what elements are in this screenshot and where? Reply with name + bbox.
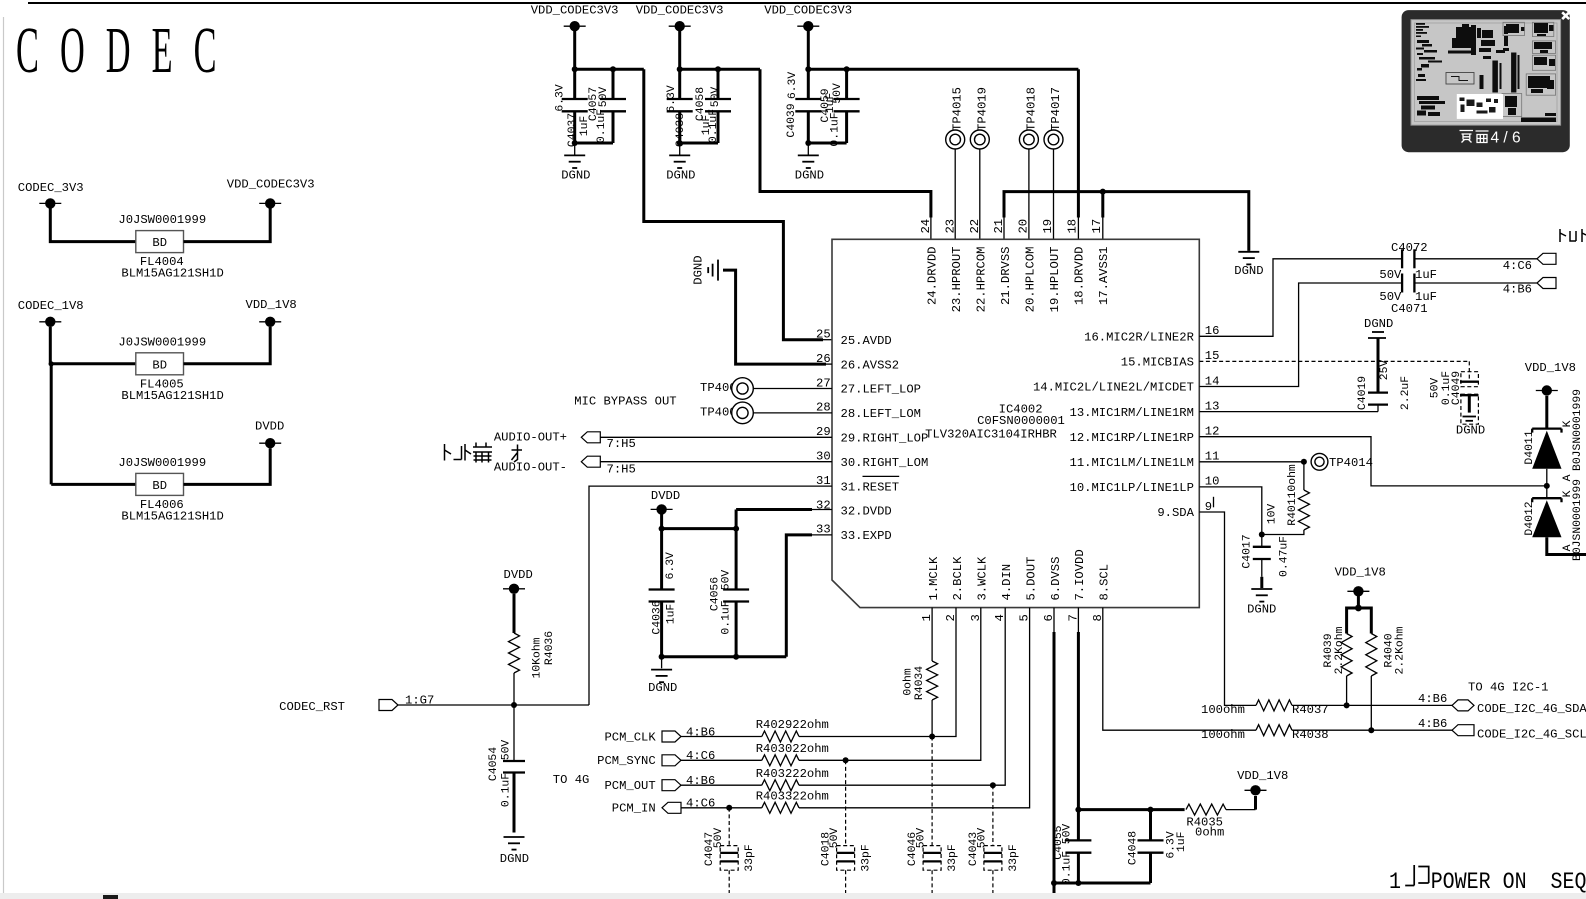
svg-text:DGND: DGND	[500, 852, 529, 866]
node	[610, 66, 616, 72]
svg-text:C4037: C4037	[567, 113, 579, 147]
svg-text:24.DRVDD: 24.DRVDD	[926, 247, 940, 306]
svg-text:22ohm: 22ohm	[792, 742, 829, 756]
ground DGND inverted (C4019 top)	[1364, 317, 1393, 338]
svg-text:2.BCLK: 2.BCLK	[951, 556, 965, 601]
wire	[807, 31, 810, 69]
svg-text:33pF: 33pF	[861, 844, 873, 872]
wire	[50, 327, 136, 364]
svg-text:B0JSN0001999: B0JSN0001999	[1572, 389, 1584, 471]
svg-text:6.3V: 6.3V	[666, 85, 678, 113]
svg-text:15.MICBIAS: 15.MICBIAS	[1121, 356, 1194, 370]
wire	[575, 142, 613, 145]
pin name labels top	[926, 247, 1111, 313]
wire	[184, 208, 271, 241]
capacitor C4043 33pF	[968, 785, 1020, 893]
wire SDA	[1292, 704, 1452, 706]
resistor R4040 2.2Kohm	[1366, 626, 1407, 676]
wire SCL	[1292, 729, 1452, 731]
node	[990, 782, 996, 788]
svg-text:22ohm: 22ohm	[792, 790, 829, 804]
node	[659, 526, 665, 532]
svg-text:32.DVDD: 32.DVDD	[841, 505, 892, 519]
wire pin33 EXPD	[786, 535, 812, 657]
resistor R4039 2.2Kohm	[1323, 626, 1352, 676]
svg-text:D4011: D4011	[1524, 430, 1536, 464]
power net DVDD	[255, 419, 284, 448]
capacitor C4072 1uF	[1379, 241, 1437, 282]
node	[929, 734, 935, 740]
svg-text:1: 1	[1389, 869, 1401, 896]
wire SDA from pin9	[1199, 512, 1256, 705]
wire	[1414, 282, 1537, 284]
svg-text:4:B6: 4:B6	[1503, 282, 1532, 296]
node	[659, 654, 665, 660]
wire RESET to pin31	[589, 486, 832, 705]
svg-text:50V: 50V	[500, 740, 512, 761]
node	[1355, 605, 1362, 612]
svg-text:50V: 50V	[977, 828, 989, 849]
svg-text:R4036: R4036	[544, 631, 556, 665]
svg-text:CODEC: CODEC	[16, 14, 238, 87]
svg-text:DVDD: DVDD	[504, 568, 533, 582]
svg-text:4:B6: 4:B6	[1418, 692, 1447, 706]
node	[844, 66, 850, 72]
power net CODEC_3V3	[18, 181, 84, 209]
svg-text:0.1uF: 0.1uF	[596, 109, 608, 143]
node CODE_I2C_4G_SCL tag	[1418, 717, 1586, 742]
svg-text:VDD_1V8: VDD_1V8	[246, 298, 297, 312]
node	[843, 757, 849, 763]
node	[1368, 727, 1374, 733]
node	[511, 702, 517, 708]
svg-text:4.DIN: 4.DIN	[1000, 564, 1014, 601]
pin number labels left	[816, 328, 831, 537]
ferrite bead FL4004	[118, 213, 223, 281]
svg-text:DGND: DGND	[666, 169, 695, 183]
svg-text:CODEC_3V3: CODEC_3V3	[18, 181, 84, 195]
svg-text:4:B6: 4:B6	[686, 774, 715, 788]
svg-text:9.SDA: 9.SDA	[1157, 506, 1194, 520]
capacitor C4036	[649, 529, 675, 657]
svg-text:7:H5: 7:H5	[607, 463, 636, 477]
svg-text:0.1uF: 0.1uF	[829, 112, 841, 146]
svg-text:CODEC_RST: CODEC_RST	[279, 700, 345, 714]
svg-text:2.2Kohm: 2.2Kohm	[1334, 626, 1346, 674]
resistor R4033 22ohm	[756, 790, 829, 814]
wire	[1370, 676, 1372, 730]
pin name labels left	[841, 334, 929, 543]
node CODEC_1V8 junction	[49, 361, 54, 366]
wire DVSS pin6	[1053, 608, 1055, 632]
test point TP4015	[946, 87, 965, 239]
svg-text:20: 20	[1017, 219, 1031, 234]
svg-text:BLM15AG121SH1D: BLM15AG121SH1D	[121, 389, 223, 403]
pin name labels bottom	[927, 549, 1112, 600]
capacitor C4018 33pF	[821, 760, 873, 893]
svg-text:100ohm: 100ohm	[1201, 728, 1245, 742]
wire	[1226, 809, 1256, 811]
svg-text:J0JSW0001999: J0JSW0001999	[118, 213, 206, 227]
svg-text:28.LEFT_LOM: 28.LEFT_LOM	[841, 407, 921, 421]
pin name labels right	[1033, 331, 1195, 521]
svg-text:14.MIC2L/LINE2L/MICDET: 14.MIC2L/LINE2L/MICDET	[1033, 381, 1194, 395]
svg-text:33pF: 33pF	[947, 844, 959, 872]
svg-text:33pF: 33pF	[1008, 844, 1020, 872]
test point TP4019	[970, 87, 989, 239]
wire AVDD rail (group1 to pin25)	[644, 69, 823, 339]
svg-text:6.DVSS: 6.DVSS	[1049, 557, 1063, 601]
wire MIC1LM	[1199, 461, 1304, 463]
wire PCM_SYNC	[681, 759, 762, 761]
svg-text:C4058: C4058	[695, 87, 707, 121]
diode D4011	[1524, 389, 1584, 486]
svg-text:23: 23	[943, 219, 957, 234]
svg-text:DVDD: DVDD	[651, 489, 680, 503]
svg-text:2.2Kohm: 2.2Kohm	[1395, 626, 1407, 674]
svg-text:0.47uF: 0.47uF	[1278, 536, 1290, 577]
pin number labels top	[919, 219, 1104, 234]
svg-text:21.DRVSS: 21.DRVSS	[999, 247, 1013, 306]
resistor R4030 22ohm	[756, 742, 829, 766]
svg-text:21: 21	[992, 219, 1006, 234]
capacitor C4019 2.2uF	[1357, 338, 1412, 412]
svg-text:17: 17	[1090, 219, 1104, 234]
ground DGND	[500, 837, 529, 866]
power net CODEC_1V8	[18, 299, 84, 327]
svg-text:CODE_I2C_4G_SCL: CODE_I2C_4G_SCL	[1477, 728, 1586, 742]
svg-text:22: 22	[968, 219, 982, 234]
capacitor C4071 1uF	[1379, 274, 1437, 316]
capacitor C4017 0.47uF	[1242, 504, 1291, 588]
bottom scrollbar strip	[0, 893, 1586, 899]
svg-text:12.MIC1RP/LINE1RP: 12.MIC1RP/LINE1RP	[1070, 431, 1194, 445]
svg-text:AUDIO-OUT-: AUDIO-OUT-	[494, 461, 567, 475]
svg-text:0.1uF: 0.1uF	[708, 109, 720, 143]
svg-text:VDD_CODEC3V3: VDD_CODEC3V3	[764, 3, 852, 17]
svg-text:50V: 50V	[829, 828, 841, 849]
svg-text:TP4014: TP4014	[1329, 456, 1373, 470]
node	[726, 805, 732, 811]
svg-text:C4054: C4054	[488, 747, 500, 781]
node	[1148, 807, 1154, 813]
power net VDD_1V8	[1335, 566, 1386, 597]
svg-text:C4048: C4048	[1128, 831, 1140, 865]
ground DGND	[666, 155, 695, 182]
wire bottom rail	[1054, 882, 1151, 885]
svg-text:1uF: 1uF	[1415, 268, 1437, 282]
wire MIC2L to C4071	[1199, 283, 1402, 387]
svg-text:50V: 50V	[1429, 378, 1441, 399]
svg-text:7.IOVDD: 7.IOVDD	[1073, 549, 1087, 600]
sheet top border line	[28, 2, 1586, 4]
power net VDD_1V8	[246, 298, 297, 327]
svg-text:VDD_1V8: VDD_1V8	[1525, 361, 1576, 375]
node AUDIO-OUT- tag	[494, 456, 636, 476]
svg-text:R4032: R4032	[756, 767, 793, 781]
node PCM_IN tag	[612, 797, 715, 816]
svg-text:50V: 50V	[598, 87, 610, 108]
svg-text:10V: 10V	[1267, 504, 1279, 525]
svg-text:25V: 25V	[1379, 360, 1391, 381]
svg-text:31.RESET: 31.RESET	[841, 480, 900, 494]
svg-text:DGND: DGND	[1247, 602, 1276, 616]
wire pin13 to C4019	[1199, 411, 1378, 413]
wire MIC1LP	[1199, 487, 1262, 535]
ground DGND	[795, 155, 824, 182]
node	[1344, 702, 1350, 708]
node	[715, 66, 721, 72]
wire	[1414, 258, 1537, 260]
svg-text:D4012: D4012	[1524, 501, 1536, 535]
svg-text:17.AVSS1: 17.AVSS1	[1097, 247, 1111, 306]
svg-text:0.1uF: 0.1uF	[500, 773, 512, 807]
svg-text:50V: 50V	[916, 828, 928, 849]
node AVSS1 tap	[1100, 189, 1106, 195]
wire CODEC_RST net	[398, 704, 589, 706]
svg-text:24: 24	[919, 219, 933, 234]
capacitor C4049 0.1uF dashed	[1429, 361, 1485, 437]
svg-text:BD: BD	[152, 358, 167, 372]
ground DGND	[1234, 252, 1263, 278]
PDF page preview overlay	[1402, 10, 1570, 152]
ground DGND	[561, 155, 590, 182]
wire	[678, 31, 681, 69]
wire	[184, 448, 271, 484]
label POWER ON SEQ	[1389, 865, 1586, 896]
svg-text:1.MCLK: 1.MCLK	[927, 556, 941, 601]
node	[1075, 880, 1081, 886]
svg-text:32: 32	[816, 498, 831, 512]
wire SCL from pin8	[1103, 608, 1256, 731]
capacitor C4058	[705, 69, 731, 143]
pin number labels bottom	[920, 614, 1105, 621]
svg-text:1uF: 1uF	[1176, 831, 1188, 852]
svg-text:DGND: DGND	[1234, 264, 1263, 278]
svg-text:C4017: C4017	[1242, 534, 1254, 568]
resistor R4011 0ohm	[1262, 462, 1310, 535]
power net VDD_1V8	[1237, 769, 1288, 796]
overline on RESET pin31	[863, 475, 900, 477]
wire	[184, 327, 271, 364]
svg-text:MIC BYPASS OUT: MIC BYPASS OUT	[574, 395, 676, 409]
svg-text:C4039: C4039	[786, 103, 798, 137]
svg-text:R40110ohm: R40110ohm	[1287, 464, 1299, 526]
wire pin32	[735, 510, 738, 529]
svg-text:50V: 50V	[713, 828, 725, 849]
svg-text:CODE_I2C_4G_SDA: CODE_I2C_4G_SDA	[1477, 702, 1586, 716]
node	[733, 526, 739, 532]
node	[677, 66, 683, 72]
wire	[574, 143, 576, 155]
value labels C4038/C4058	[666, 85, 722, 147]
capacitor C4038	[667, 69, 693, 143]
wire DVDD rail	[662, 514, 737, 529]
wire	[807, 143, 809, 155]
svg-text:4 / 6: 4 / 6	[1491, 130, 1521, 147]
wire PCM_IN	[681, 807, 762, 809]
svg-text:PCM_OUT: PCM_OUT	[604, 779, 655, 793]
ground DGND	[648, 670, 677, 695]
wire	[679, 143, 681, 155]
power net DVDD	[503, 568, 533, 594]
wire rail	[808, 68, 1078, 71]
wire	[600, 436, 832, 438]
test point TP4009	[700, 402, 832, 424]
svg-text:TO 4G I2C-1: TO 4G I2C-1	[1468, 680, 1548, 694]
svg-text:C4036: C4036	[651, 600, 663, 634]
resistor R4032 22ohm	[756, 767, 829, 791]
ground DGND rotated	[692, 255, 719, 284]
power net VDD_CODEC3V3	[227, 177, 315, 208]
svg-text:VDD_1V8: VDD_1V8	[1335, 566, 1386, 580]
svg-text:VDD_CODEC3V3: VDD_CODEC3V3	[636, 3, 724, 17]
power net VDD_CODEC3V3	[636, 3, 724, 31]
capacitor C4037	[562, 69, 588, 143]
svg-text:22ohm: 22ohm	[792, 767, 829, 781]
value labels C4039/C4059	[786, 72, 844, 147]
svg-text:BLM15AG121SH1D: BLM15AG121SH1D	[121, 509, 223, 523]
power net VDD_CODEC3V3	[531, 3, 619, 31]
node	[1051, 880, 1057, 886]
svg-text:6.3V: 6.3V	[555, 84, 567, 112]
svg-text:R4029: R4029	[756, 718, 793, 732]
resistor R4029 22ohm	[756, 718, 829, 742]
wire	[1545, 396, 1548, 429]
wire MIC2R to C4072	[1199, 259, 1402, 337]
svg-text:5.DOUT: 5.DOUT	[1024, 557, 1038, 601]
svg-text:J0JSW0001999: J0JSW0001999	[118, 456, 206, 470]
svg-text:PCM_CLK: PCM_CLK	[604, 730, 656, 744]
svg-text:13.MIC1RM/LINE1RM: 13.MIC1RM/LINE1RM	[1070, 406, 1194, 420]
wire PCM_CLK to chip	[799, 608, 956, 737]
node	[1075, 807, 1081, 813]
svg-text:4:C6: 4:C6	[1503, 259, 1532, 273]
title CODEC	[16, 14, 238, 87]
wire PCM_CLK	[681, 736, 762, 738]
ground DGND	[1247, 589, 1276, 616]
svg-text:BD: BD	[152, 236, 167, 250]
node	[1259, 532, 1265, 538]
wire AVSS2 to ground	[723, 270, 826, 364]
svg-text:33.EXPD: 33.EXPD	[841, 529, 892, 543]
svg-text:TP4017: TP4017	[1049, 87, 1063, 131]
capacitor C4054	[488, 705, 525, 833]
svg-text:10.MIC1LP/LINE1LP: 10.MIC1LP/LINE1LP	[1070, 481, 1194, 495]
svg-text:TP4018: TP4018	[1024, 87, 1038, 131]
svg-text:CODEC_1V8: CODEC_1V8	[18, 299, 84, 313]
svg-text:10Kohm: 10Kohm	[532, 637, 544, 678]
value labels C4036/C4056	[651, 552, 732, 635]
capacitor C4039	[795, 69, 821, 143]
svg-text:25: 25	[816, 328, 831, 342]
svg-text:C4019: C4019	[1357, 376, 1369, 410]
svg-text:C4071: C4071	[1391, 302, 1428, 316]
svg-text:27.LEFT_LOP: 27.LEFT_LOP	[841, 383, 921, 397]
node PCM_CLK tag	[604, 725, 715, 744]
svg-text:C4072: C4072	[1391, 241, 1428, 255]
power net DVDD	[651, 489, 681, 514]
node CODE_I2C_4G_SDA tag	[1418, 692, 1586, 716]
svg-text:POWER ON SEQ: POWER ON SEQ	[1431, 869, 1586, 896]
wire rail	[575, 68, 644, 71]
wire PCM_OUT	[681, 784, 762, 786]
svg-text:19.HPLOUT: 19.HPLOUT	[1048, 247, 1062, 313]
capacitor C4048	[1128, 810, 1188, 883]
svg-text:R4040: R4040	[1383, 633, 1395, 667]
svg-text:26.AVSS2: 26.AVSS2	[841, 358, 900, 372]
svg-text:DVDD: DVDD	[255, 419, 284, 433]
wire rail	[680, 68, 760, 71]
wire IOVDD pin7	[1077, 608, 1079, 632]
svg-text:DGND: DGND	[795, 169, 824, 183]
svg-text:0ohm: 0ohm	[1195, 826, 1224, 840]
svg-text:PCM_SYNC: PCM_SYNC	[597, 754, 656, 768]
svg-text:C4038: C4038	[675, 113, 687, 147]
node	[805, 140, 811, 146]
power net VDD_1V8	[1525, 361, 1576, 396]
wire	[600, 461, 832, 463]
svg-text:18: 18	[1066, 219, 1080, 234]
node PCM_SYNC tag	[597, 749, 715, 768]
svg-text:100ohm: 100ohm	[1201, 703, 1245, 717]
node	[1301, 459, 1307, 465]
svg-text:0.1uF: 0.1uF	[1062, 851, 1074, 885]
wire PCM_SYNC to chip	[799, 608, 981, 761]
svg-text:33pF: 33pF	[744, 844, 756, 872]
node	[572, 66, 578, 72]
node	[572, 140, 578, 146]
svg-text:2.2uF: 2.2uF	[1400, 376, 1412, 410]
diode D4012	[1524, 479, 1584, 561]
svg-text:0ohm: 0ohm	[903, 668, 915, 696]
power net VDD_CODEC3V3	[764, 3, 852, 31]
node	[733, 654, 739, 660]
svg-text:3.WCLK: 3.WCLK	[976, 556, 990, 601]
wire CODEC_1V8 down	[50, 364, 53, 485]
wire	[661, 657, 663, 669]
svg-text:6.3V: 6.3V	[665, 552, 677, 580]
svg-text:25.AVDD: 25.AVDD	[841, 334, 892, 348]
wire bottom rail	[662, 655, 787, 658]
resistor R4034 0ohm (pin1 MCLK)	[903, 608, 938, 737]
capacitor C4057	[600, 69, 626, 143]
svg-text:0.1uF: 0.1uF	[720, 600, 732, 634]
svg-text:DGND: DGND	[648, 681, 677, 695]
node	[1544, 483, 1550, 489]
svg-text:50V: 50V	[720, 570, 732, 591]
svg-text:R4033: R4033	[756, 790, 793, 804]
svg-text:18.DRVDD: 18.DRVDD	[1072, 247, 1086, 306]
resistor R4038 100ohm	[1201, 725, 1329, 742]
wire	[573, 31, 576, 69]
resistor R4035 0ohm	[1186, 804, 1226, 840]
wire	[513, 673, 515, 705]
test point TP4017	[1044, 87, 1063, 239]
ferrite bead FL4005	[118, 335, 223, 403]
node	[805, 66, 811, 72]
svg-text:TO 4G: TO 4G	[553, 773, 590, 787]
capacitor C4056	[723, 529, 749, 657]
svg-text:DGND: DGND	[692, 255, 706, 284]
node AUDIO-OUT+ tag	[494, 430, 636, 451]
test point TP4008	[700, 378, 832, 400]
ferrite bead FL4006	[118, 456, 223, 524]
svg-text:BLM15AG121SH1D: BLM15AG121SH1D	[121, 267, 223, 281]
svg-text:VDD_CODEC3V3: VDD_CODEC3V3	[531, 3, 619, 17]
svg-text:J0JSW0001999: J0JSW0001999	[118, 335, 206, 349]
wire	[1547, 537, 1586, 554]
